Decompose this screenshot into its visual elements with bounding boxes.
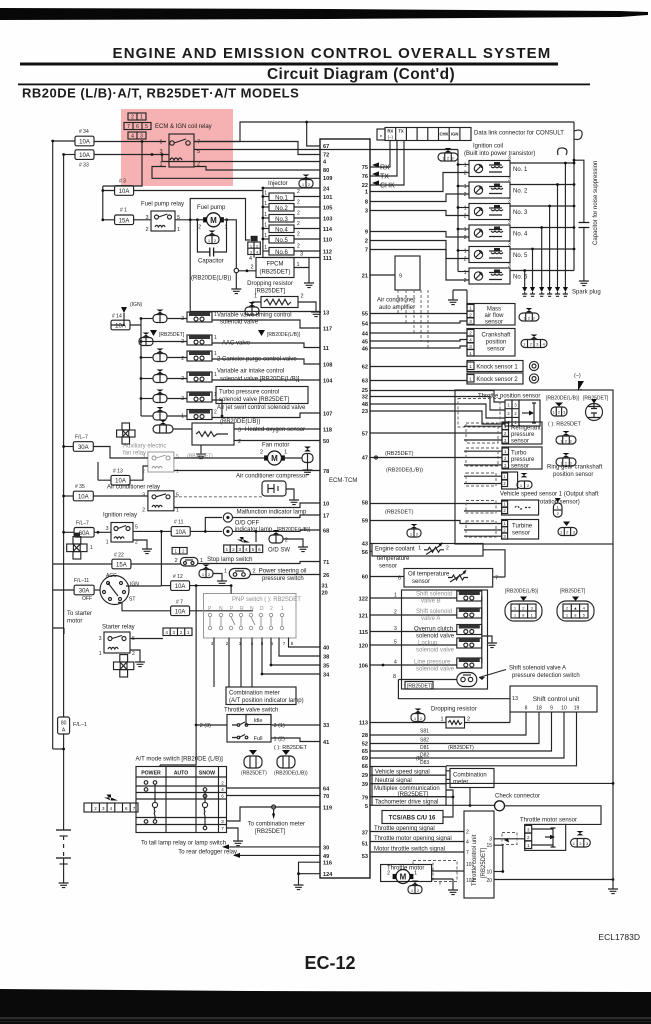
svg-text:1: 1 [284,450,287,456]
wire circle to FPCM pin2 [239,270,257,272]
throttle motor sensor box [525,824,566,850]
throttle motor box [381,865,432,882]
svg-text:10A: 10A [78,495,89,501]
wire 30A to ignition switch [94,589,100,591]
relay ignition [111,523,133,543]
svg-text:N: N [219,606,223,612]
shield dashed ring gear [466,473,496,486]
svg-text:122: 122 [359,597,368,603]
svg-text:Stop lamp switch: Stop lamp switch [207,557,252,563]
svg-text:72: 72 [323,153,329,159]
throttle motor opening signal [370,841,464,843]
svg-text:28: 28 [362,733,368,739]
lockup solenoid valve [370,638,482,654]
svg-text:3: 3 [508,177,511,183]
svg-text:D: D [260,606,264,612]
stop lamp switch [180,558,198,567]
wire to tail lamp relay (ECM 30) [229,846,320,848]
svg-text:8: 8 [365,200,368,206]
battery [56,829,71,831]
svg-text:2: 2 [270,606,273,612]
svg-text:13: 13 [512,696,518,702]
svg-text:D81: D81 [420,745,429,751]
injector No.6 [263,244,320,256]
svg-text:2: 2 [387,871,390,877]
svg-text:23: 23 [362,409,368,415]
svg-text:sensor: sensor [412,579,430,585]
wire ECM 59 to turbine [370,521,502,524]
svg-text:3: 3 [365,209,368,215]
svg-text:Turbo: Turbo [511,451,527,457]
svg-text:37: 37 [362,831,368,837]
wire resistor left [252,302,261,307]
OD switch connector strip [255,531,257,542]
wires to ring gear [464,476,502,483]
svg-text:Multiplex communication: Multiplex communication [374,786,440,792]
wire ECM 44 to crank pin2 [370,332,467,334]
wire ECM 60 to oil temp [370,576,404,578]
svg-text:120: 120 [359,644,368,650]
shift solenoid valve B [370,591,482,605]
svg-text:[RB25DET]: [RB25DET] [255,289,286,295]
label RB25DET bracket [405,682,433,690]
oil temperature sensor box [404,569,493,588]
relay auxiliary fan (gray) [148,452,174,472]
capacitor loop [197,220,226,252]
wire relay pin5 to fuel pump box [175,219,205,221]
connector MAF [519,308,539,321]
svg-text:Dropping resistor: Dropping resistor [247,281,293,287]
connector strip starter [163,628,192,636]
svg-text:55: 55 [362,312,368,318]
svg-text:39: 39 [362,782,368,788]
shield dashed turbine [466,521,496,537]
svg-text:108: 108 [323,363,332,369]
relay fuel pump [151,211,175,231]
svg-text:Malfunction indicator lamp: Malfunction indicator lamp [237,510,307,516]
svg-text:4: 4 [466,840,469,846]
shield dashed turbo [466,448,498,466]
ground MAF [452,290,454,295]
solenoid right bus [482,596,492,663]
ground solenoid [487,638,497,648]
svg-text:3: 3 [140,134,143,140]
svg-text:2: 2 [253,569,256,575]
heated oxygen sensor [153,420,320,459]
throttle position sensor group box [455,390,613,544]
svg-text:10: 10 [323,502,329,508]
svg-text:22: 22 [362,183,368,189]
svg-text:3: 3 [489,837,492,843]
svg-text:# 1: # 1 [120,208,127,214]
svg-text:Knock sensor 2: Knock sensor 2 [476,377,518,383]
svg-text:1: 1 [181,414,184,420]
throttle control unit box [464,811,494,898]
svg-text:# 3: # 3 [119,179,126,185]
svg-text:5: 5 [145,124,148,130]
svg-text:Fuel pump: Fuel pump [197,205,226,211]
svg-text:sensor: sensor [379,564,397,570]
bus1 to bus2 corner [53,748,64,750]
svg-text:1: 1 [365,190,368,196]
solenoid row 6: air jet swirl [141,405,320,425]
svg-text:F/L–1: F/L–1 [73,722,87,728]
svg-text:3 (1): 3 (1) [274,723,285,729]
wire fuse11 right with branch [190,518,222,532]
compressor [262,481,294,496]
svg-text:solenoid valve [RB20DE(L/B)]: solenoid valve [RB20DE(L/B)] [220,377,300,383]
connector strip 7cell with diamond [84,795,138,813]
lamp O/D OFF indicator [223,527,232,536]
svg-text:[RB25DET]: [RB25DET] [398,792,429,798]
svg-text:112: 112 [323,250,332,256]
right outer vertical [612,544,614,766]
wire AC relay pin1 to ECM 10 [174,503,320,508]
wire injector feed to ECM 24 [263,187,320,189]
TPS cells and resistor [505,400,540,426]
svg-text:[RB20DE(L/B)]: [RB20DE(L/B)] [546,396,580,402]
ground battery [59,878,69,888]
A/T mode switch table [136,767,227,833]
svg-text:11: 11 [323,346,329,352]
ground FPCM [304,278,314,288]
svg-text:2: 2 [181,376,184,382]
turbo pressure sensor [502,447,542,470]
connector TMS [571,831,591,847]
motor throttle switch signal [370,851,464,853]
bottom band texture line [0,1017,651,1019]
wire top branch down to ECM 67 [307,122,320,146]
arrow to combination meter [272,814,275,820]
svg-text:1: 1 [214,335,217,341]
svg-text:▲: ▲ [573,606,577,611]
ECM & IGN coil relay connector grid [124,113,151,140]
svg-text:(IGN): (IGN) [130,302,143,308]
svg-text:119: 119 [323,806,332,812]
vehicle speed signal row [372,767,446,776]
svg-text:65: 65 [362,749,368,755]
svg-text:[RB25DET]: [RB25DET] [560,589,586,595]
svg-text:8: 8 [393,674,396,680]
svg-text:2: 2 [142,508,145,514]
svg-text:ACC: ACC [106,573,117,579]
svg-text:# 34: # 34 [79,129,89,135]
vehicle speed sensor box [502,500,539,515]
svg-text:Throttle motor sensor: Throttle motor sensor [520,818,577,824]
wire OD lamp to ECM 68 [233,530,321,531]
svg-text:sensor: sensor [511,464,529,470]
big connector RB20DE [505,589,542,622]
svg-text:2: 2 [297,232,300,238]
svg-text:1: 1 [281,606,284,612]
svg-text:POWER: POWER [141,771,161,777]
svg-text:71: 71 [323,560,329,566]
svg-text:# 7: # 7 [176,600,183,606]
svg-text:46: 46 [362,347,368,353]
pressure detection switch [393,673,510,699]
wire ECM 45 to crank pin4 [370,340,467,342]
svg-text:66: 66 [362,764,368,770]
svg-text:17: 17 [323,514,329,520]
svg-text:1: 1 [224,569,227,575]
svg-text:105: 105 [323,206,332,212]
svg-text:(RB25DET): (RB25DET) [385,510,414,516]
svg-text:15A: 15A [116,563,127,569]
svg-text:106: 106 [359,664,368,670]
wire TVS full to ECM 41 [271,738,320,742]
svg-text:Shift solenoid: Shift solenoid [416,592,452,598]
mass air flow sensor box [467,304,515,326]
shift solenoid valve A [370,608,482,622]
svg-text:103: 103 [466,878,475,884]
svg-text:115: 115 [359,630,368,636]
svg-text:Air conditioner relay: Air conditioner relay [107,485,160,491]
node relay feeds [141,140,144,143]
svg-text:2: 2 [181,339,184,345]
refrigerant pressure sensor [502,422,542,445]
svg-text:1: 1 [464,227,467,233]
svg-text:S82: S82 [420,738,429,744]
svg-text:110: 110 [323,238,332,244]
ignition coil No.1 [370,156,575,288]
svg-text:(A/T position indicator lamp): (A/T position indicator lamp) [229,698,304,704]
ground right lower [612,880,614,885]
wire TCU 10 [494,871,503,873]
svg-text:2: 2 [464,278,467,284]
svg-text:No.4: No.4 [275,227,288,233]
ground fuel pump [231,284,241,294]
svg-text:111: 111 [323,256,332,262]
svg-text:9: 9 [550,706,553,712]
svg-text:3: 3 [142,454,145,460]
svg-text:[RB25DET]: [RB25DET] [407,684,433,690]
svg-text:(RB20DE(L/B)): (RB20DE(L/B)) [191,276,231,282]
wire MAF pin1 to ground [453,290,467,308]
connector refrigerant [556,431,576,444]
wires ECM 57 etc to refrigerant [370,432,502,434]
svg-text:SNOW: SNOW [199,771,215,777]
ground capacitor [579,276,589,286]
ECM-TCM main box [320,139,370,878]
svg-text:15: 15 [486,843,492,849]
injector No.5 [262,232,321,244]
svg-text:2: 2 [260,450,263,456]
svg-text:10A: 10A [79,153,90,159]
svg-text:4: 4 [394,660,397,666]
connector cross starter relay [114,655,134,677]
svg-text:58: 58 [362,501,368,507]
fuse #14 10A [111,320,130,330]
wire malfunction lamp to ECM 17 [233,515,321,518]
connector ring gear [517,473,532,489]
wire tach to TCS/ABS [443,797,453,817]
solenoid row 2: AAC valve [139,330,320,348]
svg-text:Ignition relay: Ignition relay [103,513,137,519]
svg-text:1: 1 [394,593,397,599]
svg-text:meter: meter [453,780,468,786]
svg-text:(Built into power transistor): (Built into power transistor) [464,151,535,157]
svg-text:2: 2 [464,192,467,198]
svg-text:Knock sensor 1: Knock sensor 1 [476,365,518,371]
svg-text:2 (3): 2 (3) [200,723,211,729]
svg-text:air flow: air flow [484,313,504,319]
right lower vertical [612,766,614,880]
fuse #35 10A [64,495,74,497]
svg-text:Air conditioner compressor: Air conditioner compressor [236,474,307,480]
svg-text:30: 30 [323,845,329,851]
svg-text:1: 1 [464,206,467,212]
svg-text:[RB20DE(L/B)]: [RB20DE(L/B)] [267,332,301,338]
svg-text:26: 26 [323,573,329,579]
combination meter box 2 [450,769,494,788]
svg-text:AUTO: AUTO [174,771,189,777]
svg-text:43: 43 [362,542,368,548]
svg-text:1: 1 [464,163,467,169]
svg-text:2: 2 [446,546,449,552]
svg-text:79: 79 [362,796,368,802]
engine coolant temperature sensor box [372,544,483,557]
schematic right border with hook [573,122,575,271]
svg-text:7: 7 [365,248,368,254]
svg-text:Neutral signal: Neutral signal [375,778,412,784]
svg-text:48: 48 [362,402,368,408]
wire ECM 63 to knock2 [370,380,467,382]
wire fuse33 to relay pin3 [94,154,169,156]
svg-text:Crankshaft: Crankshaft [481,333,510,339]
svg-text:Shift solenoid: Shift solenoid [416,609,452,615]
svg-text:RX: RX [387,129,393,134]
ring gear sensor box [502,472,518,489]
connector dropping resistor 2 [411,709,425,722]
svg-text:60: 60 [362,575,368,581]
svg-text:3: 3 [508,263,511,269]
connector turbine [558,522,577,536]
svg-text:Vehicle speed signal: Vehicle speed signal [375,769,430,775]
svg-text:1: 1 [414,871,417,877]
svg-text:5: 5 [176,454,179,460]
wire ECM 21 to AC amp [370,274,395,276]
wire ign switch to fuse7 [118,603,171,611]
svg-text:valve A: valve A [421,616,440,622]
wires ECM 25/32/48/23 to TPS [370,391,505,403]
svg-text:No. 2: No. 2 [513,189,528,195]
resistor dropping 2 [446,717,465,728]
svg-text:5: 5 [135,525,138,531]
wire fan relay to fan motor [174,457,268,459]
wire relay pin7 to top wire [194,122,574,142]
svg-text:solenoid valve: solenoid valve [416,634,455,640]
svg-text:101: 101 [466,862,475,868]
coil supply bus [457,150,459,272]
svg-text:ECM & IGN coil relay: ECM & IGN coil relay [155,124,212,130]
svg-text:10: 10 [561,706,567,712]
svg-text:(RB25DET): (RB25DET) [259,270,290,276]
svg-text:No. 3: No. 3 [513,210,528,216]
svg-text:To starter: To starter [67,611,92,617]
svg-text:1: 1 [176,469,179,475]
svg-text:No.2: No.2 [275,206,288,212]
fuel pump wire frame [190,199,320,312]
svg-text:Shift control unit: Shift control unit [533,696,580,703]
svg-text:(–): (–) [574,373,581,379]
svg-text:1: 1 [464,184,467,190]
wire 15A to relay [134,219,151,221]
svg-text:No. 6: No. 6 [513,275,528,281]
wire multiplex to right ground bus [446,782,613,784]
connector injector [299,175,313,188]
svg-text:TCS/ABS C/U 16: TCS/ABS C/U 16 [389,816,436,822]
ignition coil No.3 [370,199,575,288]
knock sensor 2 box [467,373,523,384]
wire to starter motor [53,628,64,634]
wire starter relay to strip [130,639,163,658]
svg-text:1: 1 [440,717,443,723]
wire comb meter down to check wire [469,788,471,806]
svg-text:auto amplifier: auto amplifier [379,305,415,311]
svg-text:3: 3 [508,156,511,162]
svg-text:4: 4 [131,134,134,140]
svg-text:2: 2 [467,717,470,723]
extra turbo wires [464,451,502,465]
svg-text:3: 3 [238,428,241,434]
svg-text:7: 7 [466,850,469,856]
fusible link F/L-7 30A [64,446,74,448]
wire AT switch pin7 to ground [227,828,239,836]
shielded dashed box MAF wires [398,290,428,348]
fusible link 80A FL-1 [58,717,70,734]
fuse #7 10A [171,606,190,616]
svg-text:# 14: # 14 [112,314,122,320]
svg-text:Throttle motor opening signal: Throttle motor opening signal [374,836,452,842]
svg-text:2: 2 [198,225,201,231]
svg-text:2: 2 [181,356,184,362]
svg-text:2: 2 [301,294,304,300]
svg-text:2: 2 [175,558,178,564]
wire to rear defogger relay (ECM 49) [240,854,320,856]
svg-text:No. 5: No. 5 [513,253,528,259]
svg-text:10A: 10A [175,584,186,590]
svg-text:35: 35 [323,664,329,670]
svg-text:Dropping resistor: Dropping resistor [431,707,477,713]
svg-text:sensor: sensor [512,531,530,537]
ground ECM 116/124 [294,880,304,890]
svg-text:Heated oxygen sensor: Heated oxygen sensor [245,427,305,433]
svg-text:FPCM: FPCM [267,262,284,268]
wire FPCM pin1 riser to wire 111 [294,258,309,279]
svg-text:pressure switch: pressure switch [262,576,304,582]
wire ECM 116/124 to ground [299,862,321,880]
svg-text:5: 5 [394,640,397,646]
svg-text:101: 101 [323,195,332,201]
svg-text:2: 2 [285,538,288,544]
fuse #12 10A [161,585,170,587]
svg-text:( ): RB25DET: ( ): RB25DET [274,745,308,751]
svg-text:15A: 15A [119,218,130,224]
svg-text:Starter relay: Starter relay [102,625,135,631]
svg-text:51: 51 [362,842,368,848]
node connector open circle [234,268,238,272]
injector No.1 [262,189,321,201]
fuse #13 10A [111,475,130,485]
overrun clutch solenoid valve [370,625,482,640]
svg-text:7: 7 [197,140,200,146]
svg-text:24: 24 [323,187,330,193]
idle contact [246,715,271,725]
fuse #34 10A [53,140,75,142]
svg-text:Capacitor for noise suppressio: Capacitor for noise suppression [593,161,599,245]
svg-text:Throttle opening signal: Throttle opening signal [374,826,435,832]
ground OD switch [283,539,303,542]
